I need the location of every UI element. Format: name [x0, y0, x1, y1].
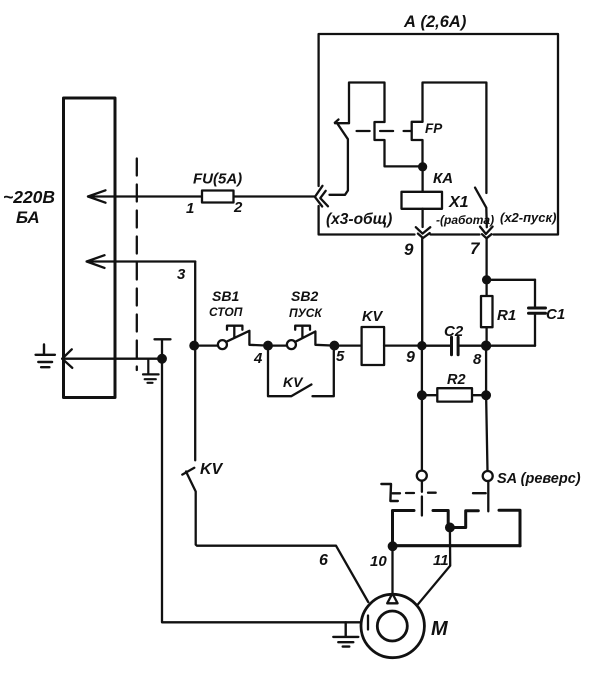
svg-text:~220В: ~220В: [3, 187, 55, 207]
svg-text:С2: С2: [444, 323, 464, 340]
svg-text:7: 7: [470, 239, 481, 258]
svg-text:1: 1: [186, 200, 194, 217]
svg-text:5: 5: [336, 348, 345, 365]
svg-text:10: 10: [370, 553, 387, 570]
svg-text:FU(5А): FU(5А): [193, 171, 242, 188]
svg-text:-(работа): -(работа): [436, 213, 494, 227]
svg-text:R1: R1: [497, 307, 516, 324]
svg-text:9: 9: [404, 240, 414, 259]
svg-text:9: 9: [406, 349, 415, 366]
svg-text:SB2: SB2: [291, 288, 318, 304]
svg-text:С1: С1: [546, 306, 565, 323]
svg-text:KV: KV: [283, 374, 304, 390]
svg-text:Х1: Х1: [448, 194, 469, 211]
svg-text:СТОП: СТОП: [209, 305, 243, 319]
svg-text:КА: КА: [433, 170, 453, 187]
svg-text:(х3-общ): (х3-общ): [326, 211, 392, 228]
svg-text:KV: KV: [200, 461, 224, 478]
svg-text:3: 3: [177, 266, 186, 283]
svg-text:SB1: SB1: [212, 288, 239, 304]
svg-text:БА: БА: [16, 208, 40, 227]
svg-text:А (2,6А): А (2,6А): [403, 13, 467, 31]
svg-text:4: 4: [253, 350, 263, 367]
svg-text:2: 2: [233, 199, 243, 216]
svg-text:11: 11: [433, 552, 449, 569]
svg-text:FP: FP: [425, 121, 443, 136]
svg-text:R2: R2: [447, 372, 466, 388]
svg-text:6: 6: [319, 552, 328, 569]
svg-text:М: М: [431, 618, 449, 640]
svg-text:8: 8: [473, 351, 482, 368]
svg-text:ПУСК: ПУСК: [289, 306, 323, 320]
svg-text:(х2-пуск): (х2-пуск): [500, 210, 556, 225]
svg-text:SA (реверс): SA (реверс): [497, 471, 581, 487]
svg-text:KV: KV: [362, 309, 383, 325]
